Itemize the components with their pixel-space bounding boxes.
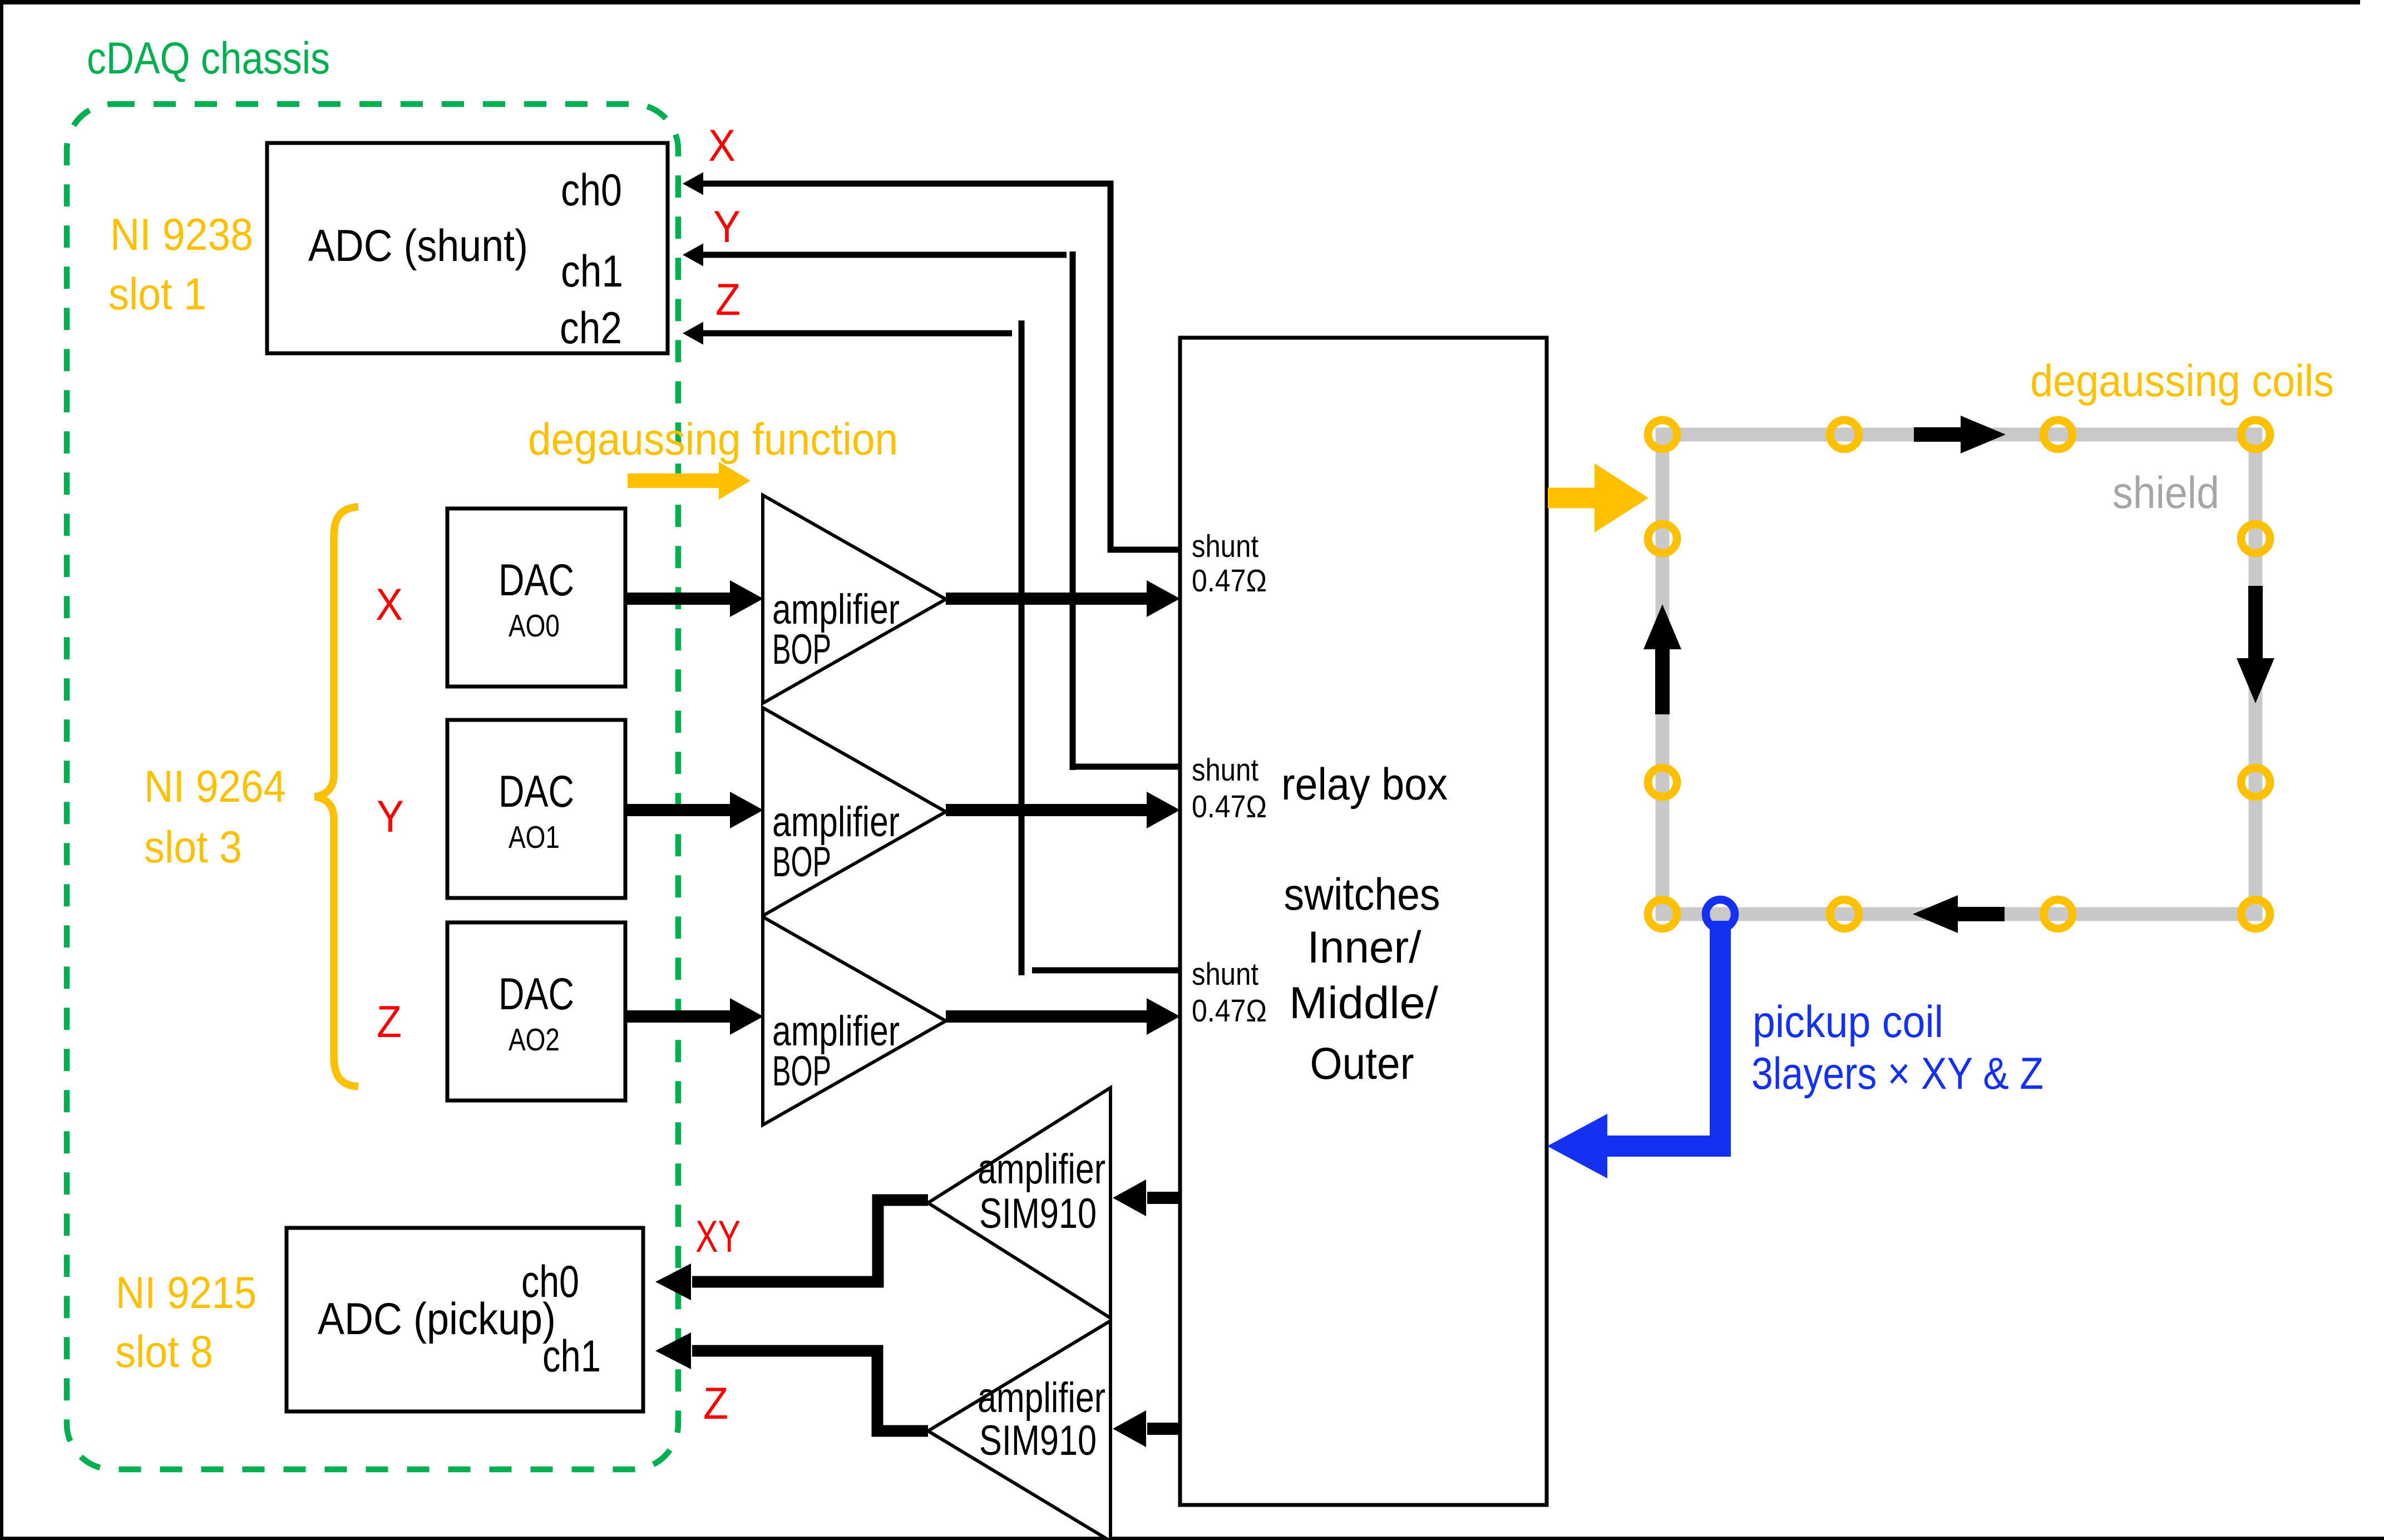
arrow relay to SIM2 head <box>1113 1410 1146 1447</box>
arrow DAC2 to BOP3 head <box>730 998 763 1035</box>
svg-text:BOP: BOP <box>772 1048 831 1095</box>
box DAC AO2 <box>447 922 625 1100</box>
arrow relay to SIM2 shaft <box>1147 1423 1180 1435</box>
svg-text:X: X <box>376 580 403 630</box>
box ADC pickup NI9215 <box>287 1228 643 1411</box>
svg-text:ch0: ch0 <box>561 165 622 215</box>
arrow DAC0 to BOP1 shaft <box>625 593 730 605</box>
arrow BOP3 to relay head <box>1147 998 1180 1035</box>
svg-text:NI 9264: NI 9264 <box>144 762 286 812</box>
arrowhead XY into ch0 <box>655 1263 691 1300</box>
degaussing coil ring 3 <box>2044 420 2072 449</box>
loop arrow right head <box>2237 658 2274 703</box>
svg-text:Z: Z <box>703 1379 728 1429</box>
border frame left <box>0 0 3 1540</box>
svg-text:shunt: shunt <box>1192 956 1258 992</box>
svg-text:XY: XY <box>695 1212 741 1262</box>
wire Y shunt sense horiz <box>701 252 1067 258</box>
svg-text:slot 3: slot 3 <box>144 822 242 872</box>
arrow BOP3 to relay shaft <box>946 1010 1147 1023</box>
op-amp BOP1 triangle <box>763 495 946 703</box>
degaussing coil ring 9 <box>1648 524 1677 553</box>
degaussing coil ring 2 <box>1830 420 1859 449</box>
svg-text:NI 9238: NI 9238 <box>110 210 253 260</box>
box DAC AO1 <box>447 720 625 898</box>
svg-text:3layers × XY & Z: 3layers × XY & Z <box>1751 1049 2044 1099</box>
wire Y shunt sense bottom <box>1073 764 1180 770</box>
svg-text:amplifier: amplifier <box>978 1374 1105 1421</box>
wire Z shunt sense horiz <box>701 330 1012 337</box>
arrow degauss to coils head <box>1595 463 1648 532</box>
arrow DAC1 to BOP2 head <box>730 792 763 828</box>
degaussing coil ring 10 <box>1648 768 1677 797</box>
svg-text:degaussing coils: degaussing coils <box>2030 356 2334 406</box>
svg-text:BOP: BOP <box>772 838 831 886</box>
svg-text:switches: switches <box>1284 870 1440 920</box>
loop arrow left shaft <box>1655 649 1670 714</box>
arrowhead Y into ch1 <box>683 244 703 266</box>
loop arrow bottom shaft <box>1958 907 2005 921</box>
loop arrow top head <box>1961 416 2006 453</box>
degaussing coil ring 1 <box>1648 420 1677 449</box>
svg-text:NI 9215: NI 9215 <box>116 1268 256 1318</box>
pickup coil ring <box>1706 900 1735 929</box>
degaussing coil ring 5 <box>1648 900 1677 929</box>
arrow pickup to relay head <box>1547 1114 1607 1178</box>
svg-text:SIM910: SIM910 <box>979 1190 1097 1237</box>
arrow BOP2 to relay head <box>1147 792 1180 828</box>
arrow relay to SIM1 shaft <box>1147 1192 1180 1204</box>
wire Y shunt sense vert <box>1070 251 1076 770</box>
cDAQ chassis dashed outline <box>67 104 678 1469</box>
svg-text:ADC (pickup): ADC (pickup) <box>318 1294 556 1344</box>
degaussing coil ring 6 <box>1830 900 1859 929</box>
op-amp BOP3 triangle <box>763 917 946 1125</box>
degaussing function arrow shaft <box>628 473 720 488</box>
arrowhead X into ch0 <box>683 172 703 195</box>
degaussing coil ring 4 <box>2241 420 2270 449</box>
border frame top <box>0 0 2360 4</box>
svg-text:0.47Ω: 0.47Ω <box>1192 993 1267 1029</box>
arrow degauss to coils shaft <box>1548 488 1596 509</box>
svg-text:slot 1: slot 1 <box>108 269 206 319</box>
arrow DAC1 to BOP2 shaft <box>625 804 730 816</box>
svg-text:Y: Y <box>713 202 741 252</box>
svg-text:Inner/: Inner/ <box>1307 922 1421 973</box>
wire X shunt sense <box>701 184 1180 550</box>
svg-text:ch1: ch1 <box>561 246 623 297</box>
svg-text:DAC: DAC <box>498 969 574 1019</box>
arrow relay to SIM1 head <box>1113 1179 1146 1216</box>
svg-text:SIM910: SIM910 <box>979 1417 1097 1464</box>
arrow BOP1 to relay head <box>1147 580 1180 617</box>
svg-text:ch2: ch2 <box>560 303 622 353</box>
pickup coil wire <box>1606 921 1720 1146</box>
svg-text:Outer: Outer <box>1310 1039 1414 1089</box>
svg-text:0.47Ω: 0.47Ω <box>1192 563 1267 599</box>
svg-text:shunt: shunt <box>1192 529 1258 564</box>
box relay <box>1180 338 1547 1505</box>
svg-text:Z: Z <box>377 997 402 1047</box>
loop arrow bottom head <box>1913 895 1958 933</box>
svg-text:ch1: ch1 <box>542 1331 601 1381</box>
degaussing coil ring 8 <box>2241 900 2270 929</box>
svg-text:DAC: DAC <box>498 767 574 817</box>
svg-text:Z: Z <box>715 275 741 325</box>
svg-text:ch0: ch0 <box>521 1257 579 1307</box>
degaussing function arrow head <box>719 462 751 500</box>
arrow DAC0 to BOP1 head <box>730 580 763 617</box>
border frame bottom <box>0 1537 2384 1540</box>
svg-text:X: X <box>708 121 736 171</box>
degaussing coil ring 7 <box>2044 900 2072 929</box>
svg-text:pickup coil: pickup coil <box>1753 997 1943 1047</box>
svg-text:slot 8: slot 8 <box>115 1327 213 1377</box>
loop arrow top shaft <box>1914 427 1961 442</box>
brace NI9264 slot3 <box>315 507 358 1087</box>
svg-text:shield: shield <box>2112 468 2219 518</box>
arrowhead Z into ch2 <box>683 322 703 345</box>
op-amp SIM910-1 triangle <box>928 1088 1110 1318</box>
wire Z shunt sense vert <box>1019 320 1025 975</box>
loop arrow left head <box>1643 604 1681 649</box>
loop arrow right shaft <box>2248 586 2263 658</box>
svg-text:Y: Y <box>377 792 404 842</box>
op-amp BOP2 triangle <box>763 708 946 916</box>
svg-text:DAC: DAC <box>498 555 574 605</box>
arrow BOP1 to relay shaft <box>946 593 1147 605</box>
arrow BOP2 to relay shaft <box>946 804 1147 816</box>
svg-text:AO0: AO0 <box>509 608 560 644</box>
svg-text:0.47Ω: 0.47Ω <box>1192 789 1267 825</box>
svg-text:cDAQ chassis: cDAQ chassis <box>87 33 330 83</box>
box ADC shunt NI9238 <box>267 143 668 353</box>
svg-text:amplifier: amplifier <box>978 1146 1105 1193</box>
degaussing coil ring 12 <box>2241 768 2270 797</box>
svg-text:Middle/: Middle/ <box>1289 978 1438 1028</box>
op-amp SIM910-2 triangle <box>928 1321 1110 1540</box>
svg-text:AO2: AO2 <box>509 1022 560 1058</box>
wire SIM2 to ch1 <box>692 1351 928 1431</box>
degaussing coil ring 11 <box>2241 524 2270 553</box>
shield loop <box>1662 435 2255 914</box>
wire Z shunt sense bottom <box>1032 968 1180 974</box>
svg-text:AO1: AO1 <box>509 820 560 855</box>
svg-text:relay box: relay box <box>1281 759 1448 810</box>
svg-text:BOP: BOP <box>772 626 831 673</box>
arrowhead Z into ch1 <box>655 1332 691 1369</box>
svg-text:shunt: shunt <box>1192 752 1258 788</box>
wire SIM1 to ch0 <box>692 1200 928 1282</box>
svg-text:degaussing function: degaussing function <box>528 414 898 465</box>
svg-text:ADC (shunt): ADC (shunt) <box>308 221 528 271</box>
arrow DAC2 to BOP3 shaft <box>625 1010 730 1023</box>
box DAC AO0 <box>447 509 625 687</box>
